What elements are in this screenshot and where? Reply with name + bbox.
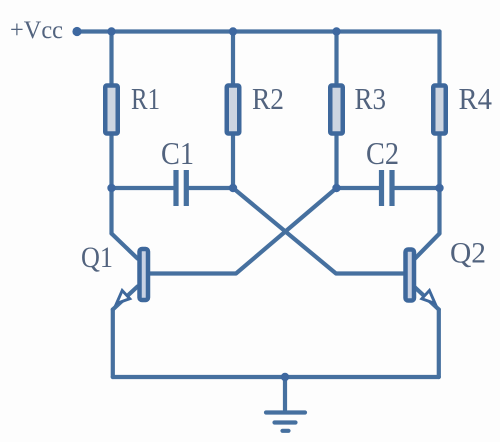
svg-text:+Vcc: +Vcc bbox=[10, 17, 63, 44]
svg-text:C2: C2 bbox=[366, 135, 399, 171]
svg-text:Q2: Q2 bbox=[450, 237, 486, 270]
svg-text:R4: R4 bbox=[459, 81, 493, 116]
svg-text:R1: R1 bbox=[131, 81, 160, 116]
svg-text:C1: C1 bbox=[161, 135, 194, 171]
svg-text:R2: R2 bbox=[252, 81, 284, 116]
svg-text:R3: R3 bbox=[355, 81, 387, 116]
svg-text:Q1: Q1 bbox=[81, 241, 113, 274]
